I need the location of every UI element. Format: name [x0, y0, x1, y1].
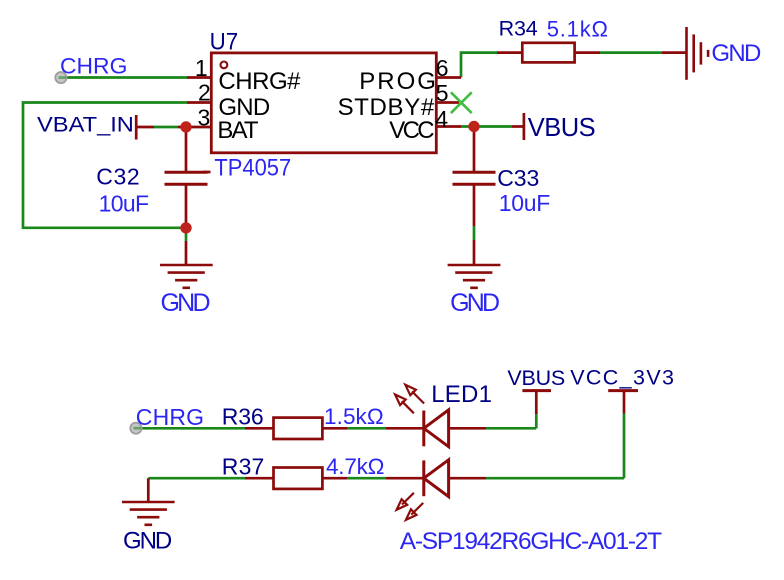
- svg-text:LED1: LED1: [431, 381, 492, 408]
- svg-text:10uF: 10uF: [499, 190, 551, 216]
- svg-text:5: 5: [436, 80, 449, 106]
- svg-text:VBUS: VBUS: [528, 114, 596, 142]
- svg-text:VBUS: VBUS: [507, 366, 565, 390]
- svg-text:CHRG: CHRG: [60, 54, 127, 79]
- svg-text:GND: GND: [450, 289, 500, 317]
- svg-text:GND: GND: [711, 40, 761, 67]
- svg-text:2: 2: [198, 79, 211, 105]
- svg-text:GND: GND: [161, 289, 211, 317]
- svg-text:CHRG: CHRG: [136, 404, 204, 430]
- svg-text:U7: U7: [210, 29, 239, 56]
- svg-text:1.5kΩ: 1.5kΩ: [324, 404, 384, 429]
- svg-text:3: 3: [198, 104, 211, 130]
- svg-text:1: 1: [195, 55, 208, 81]
- svg-text:PROG: PROG: [359, 68, 436, 95]
- svg-text:CHRG#: CHRG#: [218, 68, 301, 95]
- svg-text:4.7kΩ: 4.7kΩ: [326, 454, 385, 479]
- svg-text:6: 6: [436, 55, 449, 81]
- svg-text:5.1kΩ: 5.1kΩ: [547, 16, 608, 41]
- svg-text:C33: C33: [497, 165, 539, 191]
- svg-text:4: 4: [435, 106, 448, 132]
- svg-text:VCC: VCC: [389, 117, 434, 144]
- svg-text:TP4057: TP4057: [214, 155, 291, 182]
- svg-text:R34: R34: [499, 17, 538, 41]
- svg-text:A-SP1942R6GHC-A01-2T: A-SP1942R6GHC-A01-2T: [400, 528, 662, 555]
- svg-text:R36: R36: [222, 403, 264, 429]
- svg-text:BAT: BAT: [217, 117, 259, 144]
- svg-text:VCC_3V3: VCC_3V3: [570, 365, 674, 389]
- svg-text:GND: GND: [123, 528, 172, 555]
- svg-text:R37: R37: [222, 453, 264, 479]
- svg-text:10uF: 10uF: [99, 191, 150, 217]
- svg-text:C32: C32: [96, 164, 140, 190]
- svg-text:VBAT_IN: VBAT_IN: [37, 114, 134, 137]
